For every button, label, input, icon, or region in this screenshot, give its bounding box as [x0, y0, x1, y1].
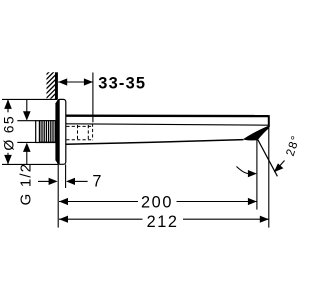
angle 28 right arrow [274, 163, 284, 172]
wall face line [55, 72, 58, 99]
svg-text:7: 7 [92, 172, 101, 190]
dimension 200 line right part [177, 201, 257, 203]
svg-text:G 1/2: G 1/2 [17, 163, 34, 206]
pipe diameter down arrow [23, 111, 31, 120]
dimension 33-35 left arrow [58, 78, 67, 85]
threads [39, 120, 55, 143]
escutcheon flange front [58, 99, 66, 164]
wire flange-front extension line [65, 164, 67, 188]
svg-text:200: 200 [141, 193, 173, 211]
dimension 200 extension line right [256, 140, 258, 210]
dimension 33-35 extension line [92, 73, 94, 123]
dimension 7 tail line [75, 180, 88, 182]
dimension Ø65 line upper [7, 99, 9, 112]
wall hatch [42, 64, 57, 112]
pipe diameter lower leader [26, 151, 28, 164]
dimension Ø65 line lower [7, 153, 9, 165]
svg-text:Ø 65: Ø 65 [1, 115, 17, 151]
angle 28 right leader line [277, 161, 285, 170]
dimension Ø65 up arrow [4, 99, 12, 109]
dimension Ø65 top extension line [2, 98, 57, 100]
label G 1/2 leader arrow [49, 178, 58, 185]
dimension 200 left arrow [59, 198, 68, 205]
dimension 33-35 right arrow [84, 78, 93, 85]
pipe top extension tick [17, 120, 35, 122]
pipe bottom extension tick [17, 141, 35, 143]
dimension 212 extension line right (spout right face extended) [268, 116, 270, 228]
label G 1/2 leader line [38, 180, 50, 182]
pipe diameter up arrow [23, 143, 31, 152]
spout tip lip [244, 126, 269, 140]
spout bottom edge [66, 140, 244, 145]
hidden connector dashed outline [66, 124, 92, 141]
spout top edge [66, 114, 269, 117]
angle 28 left arrow [248, 170, 257, 177]
dimension Ø65 down arrow [4, 155, 12, 165]
dimension 212 line left part [59, 218, 143, 220]
svg-text:33-35: 33-35 [98, 75, 146, 93]
dimension 212 right arrow [260, 216, 269, 223]
pipe diameter upper leader [26, 100, 28, 113]
spout right face [268, 115, 270, 127]
dimension 212 line right part [183, 218, 269, 220]
dimension 200 right arrow [248, 198, 257, 205]
threaded pipe body [36, 121, 56, 143]
dimension 212 left arrow [59, 216, 68, 223]
wire wall extension line below flange [57, 164, 59, 227]
angle 28 slanted line [258, 140, 278, 177]
spout inner top line [66, 124, 269, 125]
angle 28 left leader curve [237, 167, 250, 174]
svg-text:212: 212 [147, 213, 179, 231]
escutcheon flange back collar [55, 99, 59, 164]
dimension 33-35 line [58, 81, 93, 83]
dimension Ø65 bottom extension line [2, 163, 58, 165]
dimension 200 line left part [59, 201, 138, 203]
dimension 7 right arrow [66, 178, 75, 185]
